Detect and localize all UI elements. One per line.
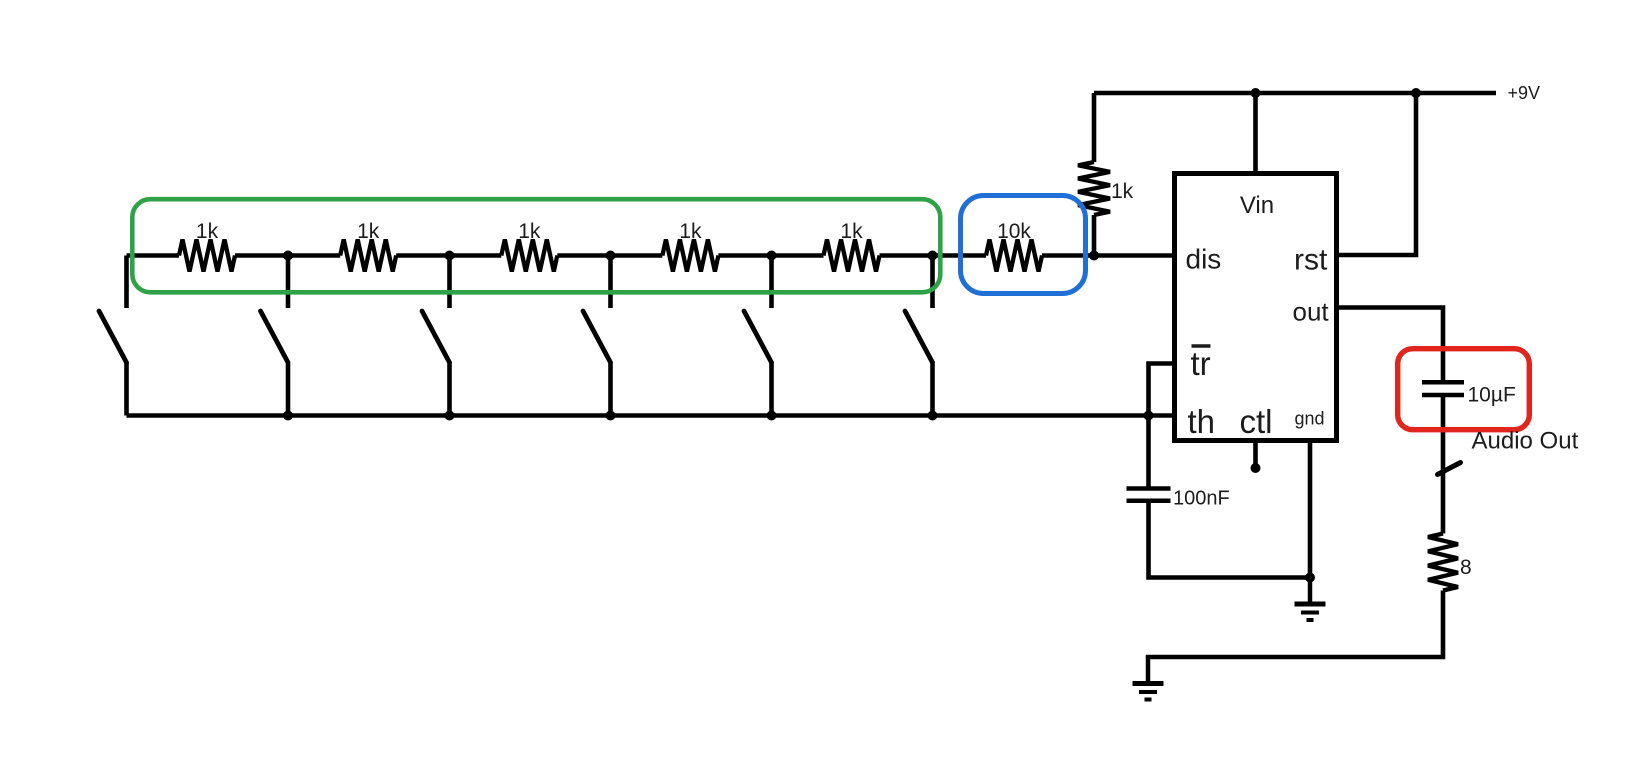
svg-text:Vin: Vin — [1240, 192, 1274, 219]
svg-text:out: out — [1293, 297, 1330, 327]
svg-text:1k: 1k — [1111, 180, 1134, 203]
svg-text:10µF: 10µF — [1468, 384, 1516, 407]
svg-text:th: th — [1188, 403, 1216, 440]
svg-text:8: 8 — [1460, 556, 1472, 579]
svg-text:1k: 1k — [518, 220, 541, 243]
svg-text:ctl: ctl — [1240, 403, 1273, 440]
svg-text:1k: 1k — [357, 220, 380, 243]
svg-text:10k: 10k — [997, 220, 1031, 243]
svg-text:+9V: +9V — [1508, 83, 1541, 103]
svg-text:1k: 1k — [840, 220, 863, 243]
svg-text:dis: dis — [1186, 244, 1222, 275]
svg-text:1k: 1k — [679, 220, 702, 243]
svg-text:Audio Out: Audio Out — [1472, 428, 1579, 455]
svg-text:gnd: gnd — [1295, 409, 1325, 429]
svg-text:tr: tr — [1191, 345, 1211, 382]
svg-text:1k: 1k — [196, 220, 219, 243]
svg-text:100nF: 100nF — [1173, 488, 1230, 510]
svg-text:rst: rst — [1294, 244, 1328, 277]
